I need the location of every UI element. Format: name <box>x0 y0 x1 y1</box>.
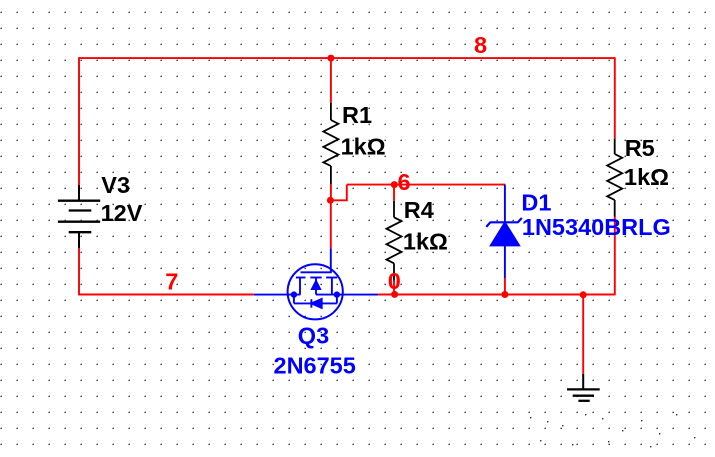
wire R1 bottom to gate junction <box>330 184 332 200</box>
svg-text:R1: R1 <box>342 102 372 128</box>
resistor R1 <box>323 103 338 184</box>
svg-text:0: 0 <box>388 268 401 294</box>
wire net6 horizontal <box>347 184 506 186</box>
svg-text:D1: D1 <box>521 189 551 215</box>
wire R4 bottom to net0 <box>393 281 395 295</box>
wire gate vertical red <box>330 200 332 248</box>
wire left vertical from top rail to battery <box>78 57 80 185</box>
svg-text:1kΩ: 1kΩ <box>403 228 448 254</box>
wire bottom rail left red (battery to Q3) <box>79 294 254 296</box>
middle cap <box>310 277 321 279</box>
right stem <box>331 278 333 295</box>
wire gate junction step right <box>330 185 346 201</box>
svg-text:6: 6 <box>398 169 411 195</box>
left drop <box>293 295 295 304</box>
wire R4 top <box>393 185 395 201</box>
left cap <box>296 277 306 279</box>
junction D1 rail <box>501 291 508 298</box>
source dot <box>291 291 297 297</box>
gate lead blue <box>330 248 332 272</box>
body diode cathode bar <box>310 299 312 308</box>
svg-text:1kΩ: 1kΩ <box>624 164 669 190</box>
wire net8 top rail <box>79 57 615 59</box>
gate bar <box>301 271 332 273</box>
wire right vertical from top rail to R5 <box>614 57 616 138</box>
svg-text:Q3: Q3 <box>298 322 329 348</box>
source lead and left rail <box>254 294 300 296</box>
body diode line <box>294 302 337 304</box>
junction ground rail <box>580 291 587 298</box>
substrate arrow <box>315 278 317 283</box>
svg-text:R5: R5 <box>625 135 655 161</box>
svg-text:1N5340BRLG: 1N5340BRLG <box>522 214 671 240</box>
drain dot <box>334 291 340 297</box>
right cap <box>326 277 337 279</box>
drain rail and lead <box>316 294 378 296</box>
junction node6 R4 <box>391 181 398 188</box>
svg-text:1kΩ: 1kΩ <box>341 134 386 160</box>
wire bottom rail right red (Q3 to R5) <box>378 294 615 296</box>
wire ground vertical red <box>582 295 584 374</box>
wire R5 bottom <box>614 217 616 296</box>
svg-text:7: 7 <box>165 268 178 294</box>
mosfet Q3 <box>254 248 378 319</box>
wire battery bottom vertical <box>78 248 80 295</box>
wire D1 bottom red <box>504 278 506 295</box>
junction gate node <box>327 197 334 204</box>
zener diode D1 <box>486 185 522 278</box>
svg-text:12V: 12V <box>101 200 143 226</box>
left stem <box>299 278 301 295</box>
svg-text:8: 8 <box>474 32 487 58</box>
svg-text:2N6755: 2N6755 <box>274 353 356 379</box>
junction node0 rail <box>391 291 398 298</box>
body diode triangle <box>311 299 321 308</box>
battery V3 <box>58 185 100 248</box>
resistor R4 <box>387 201 402 281</box>
right drop <box>336 295 338 304</box>
ground <box>567 374 600 401</box>
wire R1 top (net8 to R1) <box>330 58 332 103</box>
junction node8 <box>327 55 334 62</box>
resistor R5 <box>607 139 622 217</box>
svg-text:V3: V3 <box>101 172 130 198</box>
svg-text:R4: R4 <box>404 197 434 223</box>
